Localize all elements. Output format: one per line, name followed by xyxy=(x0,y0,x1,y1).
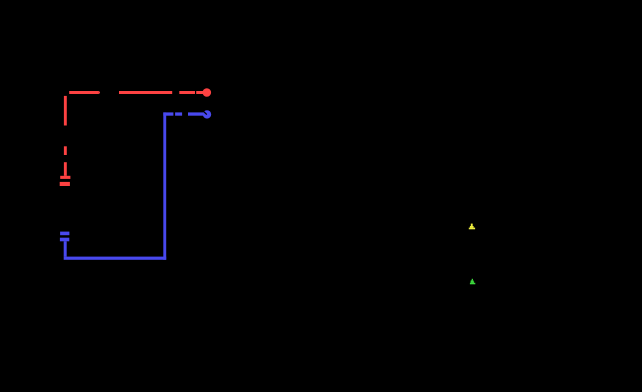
wire: red vertical dash 3 xyxy=(64,162,67,176)
blue end marker circle xyxy=(203,110,211,118)
green landmark triangle (stepped) xyxy=(470,279,475,285)
red start marker detached bar xyxy=(60,182,70,186)
arrowhead on red dash pointing right xyxy=(99,91,100,95)
red trajectory: top horizontal dashed wire xyxy=(60,88,211,186)
wire: red dash segment 2 xyxy=(119,91,172,94)
wire: blue top dash 3 into end marker xyxy=(188,112,204,115)
blue trajectory xyxy=(60,110,211,260)
wire: red dash segment 3 xyxy=(179,91,195,94)
wire: blue shaft down from crossbar xyxy=(64,241,67,256)
wire: blue top dash 1 (corner piece) xyxy=(163,112,173,115)
wire: red dash segment 4 into end marker xyxy=(196,91,204,94)
wire: red vertical dash 2 xyxy=(64,146,67,155)
yellow landmark triangle (stepped) xyxy=(469,224,475,230)
blue start marker detached bar xyxy=(60,232,69,236)
wire: red dash segment 1 (from corner) xyxy=(69,91,99,94)
wire: red vertical dash 1 xyxy=(64,96,67,126)
blue start marker crossbar xyxy=(60,238,69,242)
wire: blue bottom horizontal xyxy=(64,257,167,260)
red end marker circle xyxy=(203,88,212,97)
red start marker crossbar xyxy=(60,176,70,179)
black notch over blue circle xyxy=(203,111,207,114)
wire: blue long vertical xyxy=(163,112,166,259)
wire: blue top dash 2 xyxy=(175,112,182,115)
